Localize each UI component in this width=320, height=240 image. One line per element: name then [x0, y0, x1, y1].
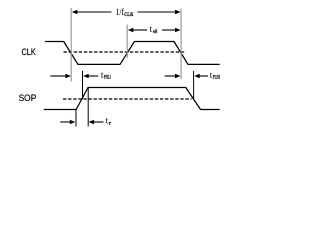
- node reference line tr right (black): [87, 88, 89, 127]
- wire SOP 50% dashed reference: [63, 98, 192, 100]
- wire CLK waveform: [46, 42, 220, 65]
- wire SOP waveform: [44, 88, 219, 110]
- wire twH arrow right: [162, 28, 181, 32]
- wire tPHL1 arrow from right: [83, 74, 98, 78]
- svg-text:CLK: CLK: [22, 47, 37, 57]
- node reference line SOP fall 50% (black): [193, 71, 195, 99]
- wire tPLH1 arrow from right: [194, 74, 208, 78]
- wire tr arrow from right: [89, 120, 104, 124]
- wire tr arrow from left: [60, 120, 75, 124]
- wire twH arrow left: [128, 28, 147, 32]
- node reference line CLK fall 2 (gray): [180, 9, 182, 80]
- svg-text:PHL1: PHL1: [104, 75, 111, 81]
- wire tPLH1 arrow from left: [165, 74, 181, 78]
- svg-text:SOP: SOP: [19, 93, 37, 103]
- wire 1/fCLK arrow right: [138, 10, 181, 14]
- node reference line CLK rise (gray): [126, 25, 128, 59]
- wire CLK 50% dashed reference: [64, 51, 186, 53]
- node reference line CLK fall 1 (gray): [70, 8, 72, 82]
- svg-text:wH: wH: [153, 29, 157, 35]
- svg-text:PLH1: PLH1: [213, 75, 221, 81]
- svg-text:CLK: CLK: [124, 12, 134, 18]
- wire tPHL1 arrow from left: [50, 74, 71, 78]
- node reference line tr left (black): [75, 109, 77, 126]
- wire 1/fCLK arrow left: [72, 10, 112, 14]
- node reference line SOP rise 50% (black): [82, 71, 84, 99]
